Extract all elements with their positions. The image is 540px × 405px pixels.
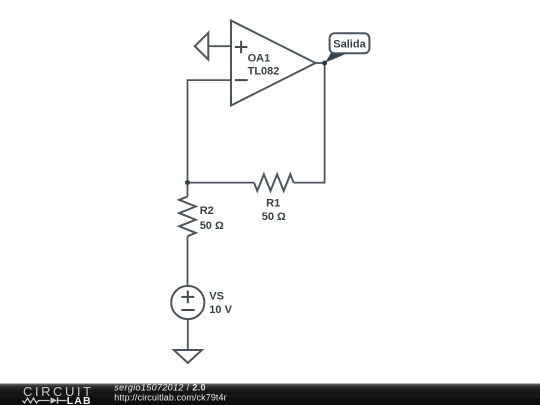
CircuitLab logo wordmark LAB — [67, 395, 92, 405]
svg-text:OA1: OA1 — [248, 52, 271, 64]
svg-text:sergio15072012 / 2.0: sergio15072012 / 2.0 — [114, 383, 206, 393]
voltage source VS 10V — [171, 286, 232, 319]
wire R1 to junction — [188, 182, 255, 184]
op-amp OA1 TL082 — [231, 21, 316, 106]
wire junction to R2 — [187, 183, 189, 197]
resistor R2 — [179, 197, 224, 237]
svg-text:TL082: TL082 — [248, 66, 280, 78]
svg-text:Salida: Salida — [333, 38, 366, 50]
svg-text:R2: R2 — [200, 205, 214, 217]
resistor R1 — [254, 174, 294, 223]
svg-text:50 Ω: 50 Ω — [200, 220, 224, 232]
footer bar — [0, 384, 540, 405]
wire output down to feedback rail — [294, 63, 325, 183]
svg-text:VS: VS — [209, 290, 224, 302]
svg-text:50 Ω: 50 Ω — [262, 211, 286, 223]
svg-text:10 V: 10 V — [209, 304, 232, 316]
footer url line — [114, 392, 226, 402]
ground — [174, 350, 202, 363]
wire VS to ground — [187, 319, 189, 350]
wire feedback from inverting input — [188, 80, 232, 183]
wire R2 to VS — [187, 236, 189, 286]
node dot output (Salida) — [322, 61, 327, 66]
CircuitLab logo wordmark CIRCUIT — [23, 384, 94, 399]
wire terminal to op-amp noninverting input — [208, 45, 231, 47]
wire op-amp output — [316, 62, 325, 64]
junction dot node — [185, 180, 190, 185]
svg-text:R1: R1 — [266, 197, 280, 209]
Salida label callout — [325, 33, 369, 62]
svg-text:LAB: LAB — [67, 395, 92, 405]
footer author line — [114, 383, 206, 393]
CircuitLab logo resistor-diode glyph — [23, 397, 67, 403]
svg-text:http://circuitlab.com/ck79t4r: http://circuitlab.com/ck79t4r — [114, 392, 226, 402]
input terminal flag — [195, 33, 209, 60]
